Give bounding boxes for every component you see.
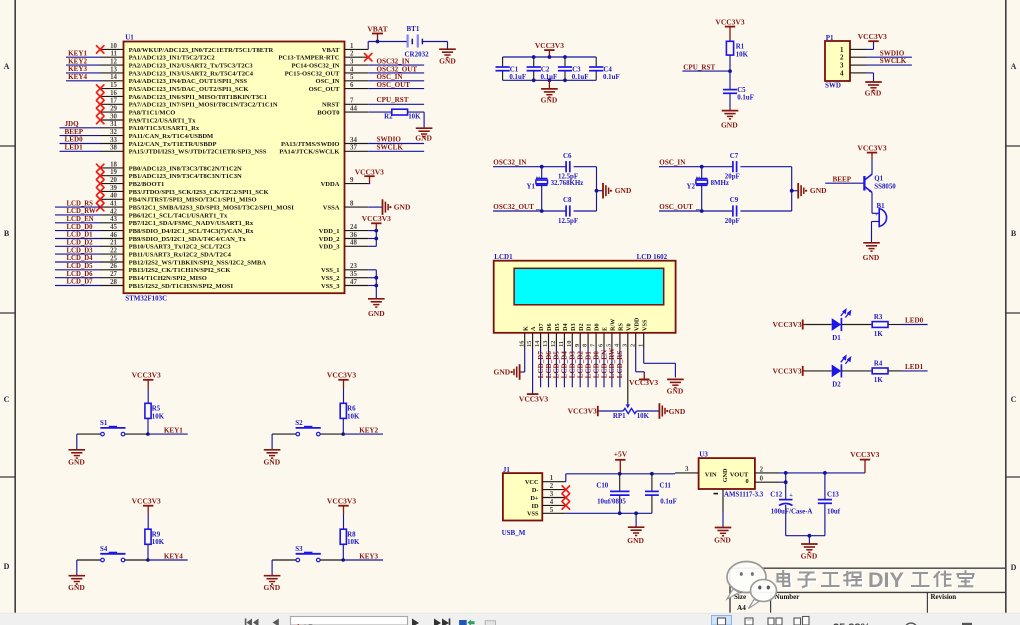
svg-text:CR2032: CR2032 — [405, 51, 430, 59]
wire VCC to collector — [871, 159, 873, 175]
svg-text:10K: 10K — [637, 413, 650, 420]
svg-text:KEY1: KEY1 — [68, 49, 87, 57]
svg-text:C3: C3 — [572, 66, 581, 73]
ground GND S2 — [264, 449, 281, 451]
svg-text:VSS: VSS — [641, 319, 648, 331]
svg-text:Q1: Q1 — [874, 176, 883, 183]
J1 pin 5 (VSS) stub — [542, 512, 566, 514]
svg-text:PB3/JTDO/SPI3_SCK/I2S3_CK/T2C2: PB3/JTDO/SPI3_SCK/I2S3_CK/T2C2/SPI1_SCK — [129, 189, 270, 196]
zone tick left y313 — [0, 312, 15, 314]
wire net OSC32_OUT — [368, 72, 424, 74]
LCD1 pin 15 (A) — [532, 333, 534, 349]
svg-text:C11: C11 — [660, 483, 672, 490]
U1 pin 26 (PB13) stub — [100, 269, 123, 271]
wire net SWDIO pin34 — [368, 143, 424, 145]
svg-text:PA2/ADC123_IN2/USART2_Tx/T5C3/: PA2/ADC123_IN2/USART2_Tx/T5C3/T2C3 — [129, 63, 254, 70]
svg-text:27: 27 — [110, 271, 117, 278]
node junctions top rail — [532, 55, 536, 59]
no-ERC X row 6 — [97, 93, 104, 100]
svg-text:SWCLK: SWCLK — [880, 57, 907, 65]
svg-text:0: 0 — [746, 478, 749, 485]
svg-text:R2: R2 — [384, 114, 393, 121]
capacitor C12 100uF/Case-A (polarized) — [779, 499, 793, 501]
svg-text:C1: C1 — [510, 66, 519, 73]
svg-text:23: 23 — [350, 263, 357, 270]
wire VCC to R6 — [343, 388, 345, 403]
svg-text:LCD1: LCD1 — [494, 253, 513, 261]
U1 pin 16 (PA6) stub — [100, 95, 123, 97]
U1 pin 44 (BOOT0) stub — [345, 111, 369, 113]
svg-text:1: 1 — [550, 475, 554, 482]
capacitor C11 0.1uF — [651, 474, 653, 491]
svg-text:PB8/SDIO_D4/I2C1_SCL/T4C3(7)/C: PB8/SDIO_D4/I2C1_SCL/T4C3(7)/CAN_Rx — [129, 228, 254, 235]
svg-text:KEY3: KEY3 — [359, 552, 378, 560]
wire net LCD_D3 vertical — [571, 349, 573, 388]
ground GND P1 — [865, 81, 882, 83]
LCD1 pin 6 (E) — [603, 333, 605, 349]
U1 pin 2 (PC13-TAMPER-RTC) stub — [345, 56, 369, 58]
svg-text:20: 20 — [110, 177, 117, 184]
svg-text:GND: GND — [865, 88, 882, 97]
LCD1 pin 13 (D6) — [548, 333, 550, 349]
node junction VDD_2 — [374, 237, 378, 241]
svg-text:32: 32 — [110, 129, 117, 136]
node junction +5V/C10 — [618, 472, 622, 476]
svg-text:11: 11 — [558, 341, 565, 347]
svg-text:S3: S3 — [295, 546, 303, 553]
svg-text:D6: D6 — [546, 323, 553, 331]
svg-text:GND: GND — [810, 186, 827, 195]
svg-text:OSC_OUT: OSC_OUT — [659, 203, 693, 211]
svg-text:PA5/ADC123_IN5/DAC_OUT2/SPI1_S: PA5/ADC123_IN5/DAC_OUT2/SPI1_SCK — [129, 86, 250, 93]
svg-text:35: 35 — [350, 271, 357, 278]
wire LCD VDD to VCC3V3 — [635, 349, 637, 372]
ground GND crystal (bar style) — [602, 183, 604, 199]
wire R5 to junction — [147, 418, 149, 434]
svg-text:VCC3V3: VCC3V3 — [857, 143, 886, 152]
watermark logo speech bubbles — [727, 562, 777, 609]
no-ERC X row PB4 — [97, 196, 104, 203]
svg-text:C5: C5 — [737, 87, 746, 94]
wire net LED1 — [60, 150, 101, 152]
wire net LED0 — [60, 143, 101, 145]
wire net LCD_D4 — [55, 261, 101, 263]
svg-text:31: 31 — [110, 121, 117, 128]
ground GND crystal (bar style) — [797, 183, 799, 199]
wire P1 pin1 to VCC3V3 — [866, 48, 874, 50]
wire D2 to R4 — [841, 370, 872, 372]
wire button S4 pins — [125, 559, 148, 561]
svg-text:PA15/JTDI/I2S3_WS/JTDI/T2C1ETR: PA15/JTDI/I2S3_WS/JTDI/T2C1ETR/SPI3_NSS — [129, 149, 267, 156]
svg-text:E: E — [602, 327, 609, 331]
svg-text:10uf: 10uf — [827, 509, 841, 516]
svg-text:KEY2: KEY2 — [68, 57, 87, 65]
svg-text:LCD_EN: LCD_EN — [67, 216, 94, 223]
no-ERC X row PB0 — [97, 164, 104, 171]
svg-text:10K: 10K — [408, 114, 421, 121]
svg-text:OSC32_IN: OSC32_IN — [493, 159, 527, 167]
wire LCD VSS to GND — [643, 349, 645, 364]
svg-text:D+: D+ — [530, 495, 539, 502]
resistor R4 1K — [872, 368, 888, 374]
wire net CPU_RST pin7 — [368, 103, 424, 105]
svg-text:PA1/ADC123_IN1/T5C2/T2C2: PA1/ADC123_IN1/T5C2/T2C2 — [129, 55, 215, 62]
U1 pin 39 (PB3) stub — [100, 190, 123, 192]
svg-text:LCD_D1: LCD_D1 — [584, 351, 592, 379]
resistor R3 1K — [872, 322, 888, 328]
svg-text:38: 38 — [110, 145, 117, 152]
svg-text:14: 14 — [110, 74, 117, 81]
svg-text:1: 1 — [350, 43, 354, 50]
LCD1 pin 9 (D2) — [579, 333, 581, 349]
svg-text:12: 12 — [550, 341, 557, 347]
U1 pin 32 (PA11) stub — [100, 135, 123, 137]
capacitor C10 10uf/0805 — [619, 474, 621, 491]
svg-text:PB6/I2C1_SCL/T4C1/USART1_Tx: PB6/I2C1_SCL/T4C1/USART1_Tx — [129, 212, 228, 219]
svg-text:PA14/JTCK/SWCLK: PA14/JTCK/SWCLK — [279, 149, 340, 156]
svg-text:30: 30 — [110, 113, 117, 120]
svg-text:PC13-TAMPER-RTC: PC13-TAMPER-RTC — [278, 55, 339, 62]
svg-text:3: 3 — [621, 344, 628, 347]
wire net KEY3 — [343, 559, 383, 561]
svg-text:4: 4 — [350, 66, 354, 73]
ground GND LCD VSS — [667, 378, 684, 380]
svg-text:PA13/JTMS/SWDIO: PA13/JTMS/SWDIO — [281, 141, 339, 148]
U1 pin 20 (PB2) stub — [100, 183, 123, 185]
svg-text:20pF: 20pF — [725, 218, 740, 225]
svg-text:10K: 10K — [347, 539, 360, 546]
capacitor C4 0.1uF — [595, 57, 597, 67]
U1 pin 22 (PB11) stub — [100, 253, 123, 255]
wire net BEEP — [60, 135, 101, 137]
U1 pin 18 (PB0) stub — [100, 167, 123, 169]
svg-text:SS8050: SS8050 — [874, 183, 896, 190]
svg-text:VBAT: VBAT — [322, 47, 340, 54]
svg-text:SWDIO: SWDIO — [377, 136, 402, 144]
wire U3 GND to ground — [722, 513, 724, 528]
svg-text:OSC32_OUT: OSC32_OUT — [377, 65, 418, 73]
svg-text:26: 26 — [110, 263, 117, 270]
LCD1 pin 7 (D0) — [595, 333, 597, 349]
toolbar continuous icon — [745, 618, 753, 625]
svg-text:KEY4: KEY4 — [164, 552, 183, 560]
wire net LCD_D1 — [55, 238, 101, 240]
wire R9 to junction — [147, 544, 149, 560]
LCD1 pin 1 (VSS) — [643, 333, 645, 349]
U1 pin 28 (PB15) stub — [100, 285, 123, 287]
ground GND USB — [628, 526, 645, 528]
svg-text:A4: A4 — [737, 604, 746, 612]
svg-text:LCD_D6: LCD_D6 — [545, 351, 553, 379]
svg-text:KEY3: KEY3 — [68, 65, 87, 73]
svg-text:VCC3V3: VCC3V3 — [773, 320, 802, 329]
svg-text:C10: C10 — [596, 483, 608, 490]
LED D1 — [832, 318, 842, 331]
U1 pin 34 (PA13/JTMS/SWDIO) stub — [345, 143, 369, 145]
ground GND R2 — [416, 127, 433, 129]
node junction GND stub — [790, 189, 794, 193]
svg-text:USB_M: USB_M — [502, 529, 526, 537]
svg-text:VIN: VIN — [705, 471, 717, 478]
capacitor C3 0.1uF — [564, 57, 566, 67]
svg-text:R9: R9 — [152, 531, 161, 538]
svg-text:PB11/USART3_Rx/I2C2_SDA/T2C4: PB11/USART3_Rx/I2C2_SDA/T2C4 — [129, 252, 232, 259]
U1 pin 45 (PB8) stub — [100, 230, 123, 232]
svg-text:PA11/CAN_Rx/T1C4/USBDM: PA11/CAN_Rx/T1C4/USBDM — [129, 133, 214, 140]
node junction bottom rail GND — [808, 534, 812, 538]
svg-text:48: 48 — [350, 240, 357, 247]
svg-text:32.768KHz: 32.768KHz — [551, 180, 584, 187]
svg-text:29: 29 — [110, 106, 117, 113]
wire P1 pin4 to GND — [866, 72, 874, 74]
LCD1 pin 14 (D7) — [540, 333, 542, 349]
wire net LCD_RS vertical — [619, 349, 621, 388]
wire net LCD_RW vertical — [611, 349, 613, 388]
zone tick left y146 — [0, 145, 15, 147]
wire net LCD_EN vertical — [603, 349, 605, 388]
wire net LCD_D2 vertical — [579, 349, 581, 388]
wire net OSC_OUT — [368, 88, 424, 90]
svg-text:LCD_D6: LCD_D6 — [67, 271, 94, 278]
toolbar facing icon — [768, 618, 774, 625]
node junction OSC_OUT — [700, 209, 704, 213]
title block sep Size/Number — [770, 592, 772, 612]
node junction C10 bottom — [618, 511, 622, 515]
no-ERC X row PB3 — [97, 188, 104, 195]
wire net LCD_D6 — [55, 277, 101, 279]
svg-text:PA4/ADC123_IN4/DAC_OUT1/SPI1_N: PA4/ADC123_IN4/DAC_OUT1/SPI1_NSS — [129, 78, 248, 85]
wire VDD rail — [375, 231, 377, 247]
zone tick left y480 — [0, 476, 15, 478]
svg-text:VDD: VDD — [633, 317, 640, 331]
wire button S2 pins — [320, 433, 343, 435]
svg-text:PB10/USART3_Tx/I2C2_SCL/T2C3: PB10/USART3_Tx/I2C2_SCL/T2C3 — [129, 244, 232, 251]
svg-text:BEEP: BEEP — [833, 175, 852, 183]
svg-text:R/W: R/W — [610, 318, 617, 331]
wire S3 to GND — [271, 560, 273, 576]
wire net OSC_IN — [368, 80, 424, 82]
ground GND S1 — [69, 449, 86, 451]
wire net OSC_IN — [659, 166, 733, 168]
U1 pin 12 (PA2) stub — [100, 64, 123, 66]
svg-text:VCC3V3: VCC3V3 — [519, 395, 548, 404]
wire S4 to GND — [76, 560, 78, 576]
wire net LCD_D2 — [55, 245, 101, 247]
P1 pin 2 stub — [850, 56, 866, 58]
U1 pin 43 (PB7) stub — [100, 222, 123, 224]
svg-text:VSS_2: VSS_2 — [321, 275, 340, 282]
svg-text:U3: U3 — [699, 451, 708, 459]
capacitor C8 12.5pF — [565, 205, 567, 216]
toolbar magnifier icon — [905, 623, 918, 625]
svg-text:D-: D- — [532, 487, 539, 494]
svg-text:12: 12 — [110, 59, 117, 66]
LCD1 pin 5 (R/W) — [611, 333, 613, 349]
node junction pin0/C12 — [784, 480, 788, 484]
U1 pin 17 (PA7) stub — [100, 103, 123, 105]
svg-text:D0: D0 — [594, 323, 601, 331]
svg-text:0: 0 — [760, 475, 764, 482]
U1 pin 10 (PA0) stub — [100, 48, 123, 50]
svg-text:C4: C4 — [603, 66, 612, 73]
svg-text:KEY1: KEY1 — [164, 426, 183, 434]
node junction C13 top — [823, 471, 827, 475]
svg-text:1K: 1K — [874, 377, 883, 384]
svg-text:PB7/I2C1_SDA/FSMC_NADV/USART1_: PB7/I2C1_SDA/FSMC_NADV/USART1_Rx — [129, 220, 254, 227]
wire net SWCLK P1 — [866, 64, 912, 66]
svg-text:PB5/I2C1_SMBA/I2S3_SD/SPI3_MOS: PB5/I2C1_SMBA/I2S3_SD/SPI3_MOSI/T3C2/SPI… — [129, 205, 295, 212]
svg-text:RS: RS — [617, 322, 624, 330]
LCD1 pin 12 (D5) — [555, 333, 557, 349]
svg-text:13: 13 — [542, 341, 549, 347]
svg-text:10: 10 — [566, 341, 573, 347]
svg-text:GND: GND — [667, 386, 684, 395]
svg-text:43: 43 — [110, 216, 117, 223]
U1 pin 3 (PC14-OSC32_IN) stub — [345, 64, 369, 66]
node junction VDD_1 — [374, 229, 378, 233]
svg-text:PB4/NJTRST/SPI3_MISO/T3C1/SPI1: PB4/NJTRST/SPI3_MISO/T3C1/SPI1_MISO — [129, 197, 257, 204]
svg-text:LED0: LED0 — [65, 136, 84, 144]
capacitor C6 12.5pF — [565, 161, 567, 172]
U3 GND pin stub down — [722, 489, 724, 513]
wire net LED1 — [888, 370, 902, 372]
svg-text:5: 5 — [350, 74, 354, 81]
U1 pin 37 (PA14/JTCK/SWCLK) stub — [345, 150, 369, 152]
wire VCC to D1 — [806, 324, 832, 326]
svg-text:VCC3V3: VCC3V3 — [715, 17, 744, 26]
no-ERC X row PB1 — [97, 172, 104, 179]
U1 pin 8 (VSSA) stub — [345, 206, 369, 208]
node junction VSS_2 — [374, 276, 378, 280]
svg-text:20pF: 20pF — [725, 174, 740, 181]
U1 pin 19 (PB1) stub — [100, 175, 123, 177]
svg-text:0.1uF: 0.1uF — [737, 95, 754, 102]
U1 pin 9 (VDDA) stub — [345, 183, 369, 185]
wire net LCD_D7 vertical — [540, 349, 542, 388]
transistor Q1 SS8050 — [863, 176, 865, 191]
resistor R8 10K — [340, 529, 346, 544]
capacitor C9 20pF — [732, 205, 734, 216]
ground GND RP1 (bar style) — [658, 403, 660, 419]
no-ERC X row 7 — [97, 101, 104, 108]
svg-text:GND: GND — [541, 96, 558, 105]
svg-text:LCD_D0: LCD_D0 — [67, 224, 94, 231]
node junctions bottom rail — [532, 78, 536, 82]
svg-text:GND: GND — [722, 468, 729, 482]
crystal Y1 32.768KHz — [541, 167, 543, 179]
svg-text:1K: 1K — [874, 331, 883, 338]
svg-text:VCC3V3: VCC3V3 — [568, 406, 597, 415]
svg-text:DIY: DIY — [868, 568, 904, 592]
svg-text:S1: S1 — [100, 420, 108, 427]
zone tick right y146 — [1006, 145, 1020, 147]
wire C5 to GND — [729, 93, 731, 110]
node junction OSC32_OUT — [540, 209, 544, 213]
svg-text:GND: GND — [721, 120, 738, 129]
svg-text:25: 25 — [110, 255, 117, 262]
U1 pin 27 (PB14) stub — [100, 277, 123, 279]
resistor R9 10K — [145, 529, 151, 544]
svg-text:VSS_1: VSS_1 — [321, 267, 340, 274]
svg-text:GND: GND — [615, 186, 632, 195]
svg-text:12.5pF: 12.5pF — [558, 218, 578, 225]
svg-text:10K: 10K — [152, 413, 165, 420]
svg-text:PA3/ADC123_IN3/USART2_Rx/T5C4/: PA3/ADC123_IN3/USART2_Rx/T5C4/T2C4 — [129, 70, 254, 77]
svg-text:VCC3V3: VCC3V3 — [327, 497, 356, 506]
ground GND LCD backlight (bar style left) — [519, 364, 521, 380]
svg-text:2: 2 — [550, 483, 554, 490]
svg-text:KEY4: KEY4 — [68, 73, 87, 81]
svg-text:5: 5 — [550, 507, 554, 514]
ground GND VSS — [368, 298, 385, 300]
wire pin1 to VBAT rail — [367, 42, 369, 50]
wire pin9 — [368, 183, 370, 185]
LCD1 pin 8 (D1) — [587, 333, 589, 349]
svg-text:VSSA: VSSA — [323, 205, 340, 212]
svg-text:R6: R6 — [347, 406, 356, 413]
svg-text:OSC_OUT: OSC_OUT — [309, 86, 341, 93]
U1 pin 7 (NRST) stub — [345, 103, 369, 105]
svg-text:24: 24 — [350, 224, 357, 231]
svg-text:12.5pF: 12.5pF — [558, 174, 578, 181]
wire net KEY1 — [66, 56, 101, 58]
svg-text:15: 15 — [526, 341, 533, 347]
ground GND decoupling — [548, 80, 550, 89]
svg-text:B: B — [1011, 229, 1017, 238]
toolbar single-page icon (active) — [712, 616, 732, 625]
svg-text:15: 15 — [110, 82, 117, 89]
svg-text:R5: R5 — [152, 406, 161, 413]
svg-text:VCC3V3: VCC3V3 — [132, 371, 161, 380]
svg-text:1: 1 — [637, 344, 644, 347]
wire S2 to GND — [271, 434, 273, 450]
svg-text:VDD_1: VDD_1 — [319, 228, 340, 235]
J1 pin 4 (ID) stub — [542, 504, 566, 506]
svg-text:LCD_D0: LCD_D0 — [592, 351, 600, 379]
svg-text:GND: GND — [394, 202, 411, 211]
title block sep Number/Revision — [926, 592, 928, 612]
svg-text:GND: GND — [263, 583, 280, 592]
wire button S3 pins — [320, 559, 343, 561]
U1 pin 31 (PA10) stub — [100, 127, 123, 129]
svg-text:OSC_OUT: OSC_OUT — [377, 81, 411, 89]
svg-text:34: 34 — [350, 137, 357, 144]
svg-text:4: 4 — [550, 499, 554, 506]
svg-text:LCD_D2: LCD_D2 — [67, 240, 94, 247]
svg-text:0.1uF: 0.1uF — [572, 74, 589, 81]
LCD1 pin 4 (RS) — [619, 333, 621, 349]
resistor R5 10K — [145, 403, 151, 418]
svg-text:LED1: LED1 — [905, 363, 924, 371]
svg-text:D1: D1 — [832, 335, 841, 342]
U1 pin 47 (VSS_3) stub — [345, 285, 369, 287]
wire VCC to R9 — [147, 514, 149, 529]
svg-text:STM32F103C: STM32F103C — [125, 295, 167, 303]
svg-text:A: A — [530, 326, 537, 331]
U1 pin 38 (PA15) stub — [100, 150, 123, 152]
connector J1 body — [503, 473, 542, 520]
wire VCC to D2 — [806, 370, 832, 372]
toolbar next-page button — [412, 619, 419, 625]
toolbar background — [0, 612, 1020, 615]
svg-text:LCD_RW: LCD_RW — [608, 348, 616, 379]
svg-text:VCC3V3: VCC3V3 — [132, 497, 161, 506]
U3 pin 0 stub — [755, 481, 779, 483]
wire net SWCLK pin37 — [368, 150, 424, 152]
node junction CPU_RST — [728, 69, 732, 73]
wire net LCD_D7 — [55, 285, 101, 287]
svg-text:RP1: RP1 — [613, 413, 626, 420]
